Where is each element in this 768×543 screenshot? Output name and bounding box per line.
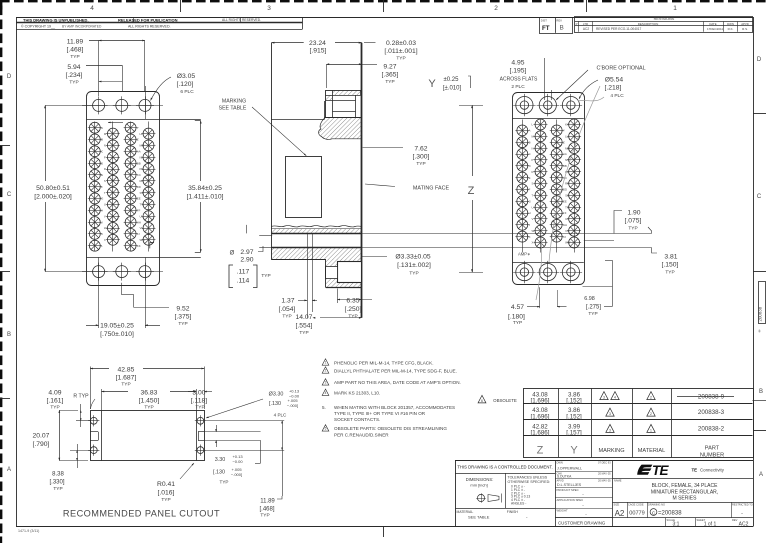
dims below middle view bbox=[307, 234, 309, 318]
svg-text:WEIGHT: WEIGHT bbox=[557, 509, 568, 513]
svg-text:2 PLC: 2 PLC bbox=[511, 84, 525, 90]
left view: connector front face bbox=[87, 92, 160, 286]
svg-text:ACROSS FLATS: ACROSS FLATS bbox=[500, 77, 538, 83]
svg-text:07 DEC 93: 07 DEC 93 bbox=[598, 461, 611, 465]
svg-text:6.98: 6.98 bbox=[584, 296, 595, 302]
svg-text:T: T bbox=[104, 191, 106, 195]
svg-text:20 MAY 05: 20 MAY 05 bbox=[598, 472, 611, 476]
svg-text:APPLICATION SPEC: APPLICATION SPEC bbox=[557, 498, 584, 502]
svg-text:TYP: TYP bbox=[348, 314, 357, 320]
svg-text:BB: BB bbox=[563, 164, 567, 168]
svg-text:[.300]: [.300] bbox=[413, 154, 430, 161]
svg-text:[.180]: [.180] bbox=[508, 313, 525, 320]
svg-text:RR: RR bbox=[140, 179, 144, 183]
svg-text:TOLERANCES UNLESS: TOLERANCES UNLESS bbox=[508, 476, 548, 480]
svg-text:N: N bbox=[104, 144, 106, 148]
svg-text:TYP: TYP bbox=[161, 497, 170, 503]
svg-text:LL: LL bbox=[140, 132, 144, 136]
svg-text:OBSOLETE: OBSOLETE bbox=[493, 398, 517, 403]
obsolete row label bbox=[478, 395, 486, 403]
svg-text:HH: HH bbox=[563, 223, 567, 227]
svg-text:3.81: 3.81 bbox=[664, 254, 677, 261]
svg-text:-: - bbox=[741, 511, 743, 517]
svg-text:TYP: TYP bbox=[261, 273, 270, 279]
TE logo bbox=[637, 463, 669, 478]
svg-text:SOCKET CONTACTS.: SOCKET CONTACTS. bbox=[334, 417, 380, 422]
notes list bbox=[322, 359, 329, 365]
middle view: side section bbox=[271, 43, 273, 260]
svg-text:Ø3.33±0.05: Ø3.33±0.05 bbox=[395, 254, 430, 261]
svg-text:W: W bbox=[532, 229, 535, 233]
svg-text:C: C bbox=[529, 152, 531, 156]
svg-text:.114: .114 bbox=[237, 278, 250, 285]
svg-text:EE: EE bbox=[563, 199, 567, 203]
svg-text:TYP: TYP bbox=[299, 330, 308, 336]
svg-text:[.375]: [.375] bbox=[175, 314, 192, 321]
controlled document cell bbox=[455, 473, 555, 475]
svg-text:H: H bbox=[101, 209, 103, 213]
svg-text:B: B bbox=[101, 138, 103, 142]
svg-text:19.05±0.25: 19.05±0.25 bbox=[100, 323, 134, 330]
svg-text:TYP: TYP bbox=[628, 226, 637, 232]
svg-text:3: 3 bbox=[325, 381, 327, 385]
svg-text:[2.000±.020]: [2.000±.020] bbox=[34, 194, 72, 201]
svg-text:MATING FACE: MATING FACE bbox=[413, 186, 450, 192]
svg-text:[.120]: [.120] bbox=[177, 81, 194, 88]
svg-text:±0.25: ±0.25 bbox=[444, 77, 460, 83]
svg-text:F: F bbox=[529, 188, 531, 192]
svg-text:[1.411±.010]: [1.411±.010] bbox=[187, 194, 224, 201]
svg-text:SS: SS bbox=[565, 194, 569, 198]
svg-text:R.S.: R.S. bbox=[742, 27, 748, 31]
svg-text:[.150]: [.150] bbox=[662, 262, 679, 269]
svg-text:TYP: TYP bbox=[50, 405, 59, 411]
svg-text:2: 2 bbox=[494, 5, 498, 12]
Z dim bbox=[459, 105, 483, 107]
svg-text:4: 4 bbox=[614, 396, 616, 400]
svg-text:Y: Y bbox=[563, 129, 565, 133]
svg-text:RR: RR bbox=[565, 182, 569, 186]
svg-text:200838-2: 200838-2 bbox=[698, 425, 725, 432]
svg-text:REV: REV bbox=[732, 518, 738, 522]
svg-text:APVD: APVD bbox=[557, 479, 564, 483]
projection symbol bbox=[477, 494, 484, 501]
svg-text:1.37: 1.37 bbox=[281, 298, 294, 305]
svg-text:[.130: [.130 bbox=[269, 401, 281, 407]
svg-text:8.38: 8.38 bbox=[52, 472, 64, 478]
svg-text:1 of 1: 1 of 1 bbox=[704, 522, 717, 528]
svg-text:CUSTOMER DRAWING: CUSTOMER DRAWING bbox=[558, 520, 606, 525]
svg-text:SS: SS bbox=[140, 191, 144, 195]
svg-text:6: 6 bbox=[481, 399, 483, 403]
dimensions cell bbox=[505, 473, 507, 508]
svg-text:[.130: [.130 bbox=[213, 470, 225, 476]
svg-text:K: K bbox=[529, 235, 531, 239]
svg-text:WW: WW bbox=[140, 238, 146, 242]
svg-text:V: V bbox=[104, 214, 106, 218]
svg-text:3.30: 3.30 bbox=[215, 457, 226, 463]
svg-text:RECOMMENDED PANEL CUTOUT: RECOMMENDED PANEL CUTOUT bbox=[63, 509, 220, 519]
svg-text:[1.696]: [1.696] bbox=[531, 397, 550, 404]
svg-text:MARKING: MARKING bbox=[598, 448, 624, 454]
svg-text:DD: DD bbox=[137, 185, 141, 189]
svg-text:[.075]: [.075] bbox=[625, 218, 642, 225]
svg-text:4.57: 4.57 bbox=[511, 304, 524, 311]
svg-text:[.330]: [.330] bbox=[49, 480, 64, 486]
cutout notches bbox=[90, 431, 98, 433]
svg-text:[.790]: [.790] bbox=[33, 441, 50, 448]
dim 9.27 bbox=[326, 64, 328, 88]
svg-text:AA: AA bbox=[563, 152, 567, 156]
svg-text:TT: TT bbox=[140, 203, 144, 207]
svg-text:[1.696]: [1.696] bbox=[531, 413, 550, 420]
svg-text:MATERIAL: MATERIAL bbox=[638, 448, 666, 454]
svg-text:P: P bbox=[104, 155, 106, 159]
dim 2.97/2.90 bbox=[246, 225, 248, 234]
svg-text:6: 6 bbox=[325, 427, 327, 431]
svg-text:Ø3.05: Ø3.05 bbox=[177, 73, 196, 80]
svg-text:20.07: 20.07 bbox=[33, 433, 50, 440]
svg-text:TE: TE bbox=[652, 463, 669, 478]
svg-text:TYP: TYP bbox=[53, 486, 62, 492]
svg-text:UU: UU bbox=[565, 217, 569, 221]
svg-text:MARKING: MARKING bbox=[222, 99, 246, 105]
svg-text:2.90: 2.90 bbox=[240, 257, 253, 264]
svg-text:DIALLYL PHTHALATE PER MIL-M-14: DIALLYL PHTHALATE PER MIL-M-14, TYPE SDG… bbox=[334, 368, 457, 373]
svg-text:K: K bbox=[101, 232, 103, 236]
svg-text:S.DUTKA: S.DUTKA bbox=[557, 475, 572, 479]
svg-text:3: 3 bbox=[603, 396, 605, 400]
svg-text:PP: PP bbox=[140, 167, 144, 171]
svg-text:TYP: TYP bbox=[121, 381, 130, 387]
svg-text:LL: LL bbox=[565, 135, 569, 139]
svg-text:PRODUCT SPEC: PRODUCT SPEC bbox=[557, 488, 579, 492]
gray leaders right view bbox=[549, 86, 600, 262]
svg-text:3:1: 3:1 bbox=[673, 522, 680, 528]
svg-text:D.L.STELLJES: D.L.STELLJES bbox=[557, 483, 582, 487]
svg-text:36.83: 36.83 bbox=[141, 390, 158, 397]
svg-text:UU: UU bbox=[140, 214, 144, 218]
svg-text:P: P bbox=[532, 158, 534, 162]
svg-text:REVISIONS: REVISIONS bbox=[654, 17, 675, 21]
svg-text:F: F bbox=[101, 185, 103, 189]
svg-text:ALL RIGHTS RESERVED.: ALL RIGHTS RESERVED. bbox=[128, 25, 171, 29]
svg-text:3: 3 bbox=[609, 412, 611, 416]
svg-text:FF: FF bbox=[563, 211, 567, 215]
svg-text:3: 3 bbox=[609, 428, 611, 432]
approvals column bbox=[555, 471, 612, 473]
svg-text:Ø5.54: Ø5.54 bbox=[605, 77, 624, 84]
svg-text:20 MAY 05: 20 MAY 05 bbox=[598, 479, 611, 483]
svg-text:[.468]: [.468] bbox=[259, 506, 274, 512]
svg-text:TYP: TYP bbox=[70, 54, 79, 60]
svg-text:[.157]: [.157] bbox=[566, 430, 582, 437]
svg-text:MM: MM bbox=[565, 146, 570, 150]
distribution box bbox=[540, 18, 573, 34]
svg-text:G: G bbox=[101, 197, 103, 201]
svg-text:ALL RIGHTS RESERVED.: ALL RIGHTS RESERVED. bbox=[222, 18, 261, 22]
svg-text:.117: .117 bbox=[237, 269, 250, 276]
svg-text:®: ® bbox=[758, 330, 761, 334]
svg-text:Y: Y bbox=[428, 78, 436, 90]
svg-text:Z: Z bbox=[468, 185, 475, 197]
svg-text:R: R bbox=[532, 170, 534, 174]
svg-text:[.054]: [.054] bbox=[279, 306, 296, 313]
svg-text:−0.00: −0.00 bbox=[232, 459, 243, 464]
svg-text:4.09: 4.09 bbox=[48, 390, 61, 397]
svg-text:2: 2 bbox=[650, 396, 652, 400]
title block bbox=[455, 460, 753, 462]
revisions table bbox=[575, 17, 753, 33]
svg-text:DIMENSIONS:: DIMENSIONS: bbox=[466, 477, 494, 482]
svg-text:THIS DRAWING IS UNPUBLISHED.: THIS DRAWING IS UNPUBLISHED. bbox=[23, 17, 89, 22]
svg-text:D: D bbox=[7, 74, 12, 80]
svg-text:5.: 5. bbox=[322, 405, 326, 410]
svg-text:TYP: TYP bbox=[416, 161, 425, 167]
svg-text:OTHERWISE SPECIFIED:: OTHERWISE SPECIFIED: bbox=[508, 480, 551, 484]
svg-text:MM: MM bbox=[140, 144, 145, 148]
title text bbox=[612, 478, 753, 480]
svg-text:Ø: Ø bbox=[230, 251, 235, 257]
svg-text:[.750±.010]: [.750±.010] bbox=[100, 331, 134, 338]
svg-text:TE: TE bbox=[692, 468, 698, 473]
svg-text:[.554]: [.554] bbox=[296, 323, 313, 330]
svg-text:C: C bbox=[7, 192, 12, 198]
svg-text:M SERIES: M SERIES bbox=[673, 495, 698, 501]
svg-text:A: A bbox=[7, 467, 11, 473]
svg-text:A: A bbox=[759, 472, 763, 478]
svg-text:U: U bbox=[532, 205, 534, 209]
svg-text:RELEASED FOR PUBLICATION: RELEASED FOR PUBLICATION bbox=[118, 17, 178, 22]
svg-text:[.915]: [.915] bbox=[310, 48, 327, 55]
svg-text:VV: VV bbox=[565, 229, 569, 233]
svg-text:TYPE II, TYPE III+ OR TYPE VI: TYPE II, TYPE III+ OR TYPE VI #16 PIN OR bbox=[334, 411, 426, 416]
svg-text:V: V bbox=[532, 217, 534, 221]
svg-text:A: A bbox=[101, 126, 103, 130]
svg-text:6 PLC: 6 PLC bbox=[180, 89, 194, 95]
svg-text:BY AMP INCORPORATED: BY AMP INCORPORATED bbox=[62, 25, 102, 29]
svg-text:[.195]: [.195] bbox=[510, 68, 527, 75]
svg-text:C: C bbox=[757, 194, 762, 200]
svg-text:KK: KK bbox=[137, 244, 141, 248]
svg-text:WHEN MATING WITH BLOCK 201357,: WHEN MATING WITH BLOCK 201357, ACCOMMODA… bbox=[334, 405, 455, 410]
svg-text:R.K.: R.K. bbox=[728, 27, 734, 31]
svg-text:R: R bbox=[104, 167, 106, 171]
svg-text:BLOCK, FEMALE, 34 PLACE: BLOCK, FEMALE, 34 PLACE bbox=[652, 483, 719, 489]
svg-text:MATERIAL: MATERIAL bbox=[457, 510, 474, 514]
svg-text:TYP: TYP bbox=[144, 405, 153, 411]
svg-text:Connectivity: Connectivity bbox=[700, 468, 725, 473]
svg-text:0.28±0.03: 0.28±0.03 bbox=[386, 40, 416, 47]
svg-text:[.118]: [.118] bbox=[191, 398, 208, 405]
svg-text:DESCRIPTION: DESCRIPTION bbox=[638, 22, 659, 26]
svg-text:Z: Z bbox=[537, 445, 544, 457]
svg-text:TYP: TYP bbox=[282, 314, 291, 320]
svg-text:[.011±.001]: [.011±.001] bbox=[384, 48, 417, 55]
svg-text:11.89: 11.89 bbox=[260, 499, 275, 505]
svg-text:4 PLC: 4 PLC bbox=[610, 93, 624, 99]
dim 3.30 notch bbox=[204, 431, 260, 433]
svg-text:TYP: TYP bbox=[513, 320, 522, 326]
svg-text:NN: NN bbox=[565, 158, 569, 162]
svg-text:BB: BB bbox=[137, 161, 141, 165]
svg-text:Ø3.30: Ø3.30 bbox=[269, 392, 284, 398]
svg-text:[1.450]: [1.450] bbox=[139, 398, 160, 405]
drawing frame bbox=[16, 17, 753, 19]
svg-text:[.161]: [.161] bbox=[47, 398, 64, 405]
svg-text:NN: NN bbox=[140, 155, 144, 159]
svg-text:Z: Z bbox=[563, 140, 565, 144]
svg-text:VV: VV bbox=[140, 226, 144, 230]
svg-text:Z: Z bbox=[137, 138, 139, 142]
svg-text:9.52: 9.52 bbox=[176, 306, 189, 313]
svg-text:TYP: TYP bbox=[665, 270, 674, 276]
part number table bbox=[524, 389, 754, 458]
svg-text:2.97: 2.97 bbox=[240, 249, 253, 256]
svg-text:THIS DRAWING IS A CONTROLLED D: THIS DRAWING IS A CONTROLLED DOCUMENT. bbox=[457, 465, 552, 470]
svg-text:−.000]: −.000] bbox=[231, 472, 242, 477]
svg-text:AMP∗: AMP∗ bbox=[518, 252, 531, 257]
svg-text:3: 3 bbox=[267, 5, 271, 12]
svg-text:AA: AA bbox=[137, 150, 141, 154]
svg-text:1: 1 bbox=[325, 361, 327, 365]
svg-text:C’BORE OPTIONAL: C’BORE OPTIONAL bbox=[596, 66, 645, 72]
svg-text:C: C bbox=[101, 150, 103, 154]
size row bbox=[612, 502, 753, 504]
svg-text:11.89: 11.89 bbox=[67, 39, 84, 46]
svg-text:[.250]: [.250] bbox=[345, 306, 362, 313]
dim 11.89 cutout bbox=[206, 420, 284, 422]
svg-text:DD: DD bbox=[563, 188, 567, 192]
svg-text:A: A bbox=[529, 129, 531, 133]
svg-text:TYP: TYP bbox=[385, 79, 394, 85]
svg-text:REV: REV bbox=[556, 18, 562, 22]
long extension lines across bbox=[362, 233, 652, 235]
svg-text:[.234]: [.234] bbox=[66, 72, 83, 79]
svg-text:200838: 200838 bbox=[758, 306, 763, 321]
svg-text:=200838: =200838 bbox=[658, 511, 682, 517]
svg-text:TYP: TYP bbox=[195, 405, 204, 411]
svg-text:[.016]: [.016] bbox=[158, 490, 175, 497]
svg-text:B: B bbox=[759, 389, 763, 395]
latch cavity top bbox=[332, 90, 360, 95]
svg-text:3.00: 3.00 bbox=[192, 390, 205, 397]
svg-text:DWN: DWN bbox=[727, 22, 734, 26]
svg-text:23.24: 23.24 bbox=[309, 40, 326, 47]
svg-text:4: 4 bbox=[90, 5, 94, 12]
svg-text:R0.41: R0.41 bbox=[157, 481, 175, 488]
svg-text:CAGE CODE: CAGE CODE bbox=[628, 502, 644, 506]
svg-text:AC2: AC2 bbox=[583, 27, 589, 31]
svg-text:X: X bbox=[532, 241, 534, 245]
svg-text:2: 2 bbox=[325, 369, 327, 373]
svg-text:6.35: 6.35 bbox=[346, 298, 359, 305]
dim 3.00 bbox=[188, 391, 196, 393]
svg-text:TYP: TYP bbox=[69, 80, 78, 86]
svg-text:42.85: 42.85 bbox=[118, 366, 135, 373]
svg-text:P: P bbox=[576, 22, 578, 26]
svg-text:D: D bbox=[529, 164, 531, 168]
svg-text:AMP PART NO THIS AREA, DATE CO: AMP PART NO THIS AREA, DATE CODE AT AMP'… bbox=[334, 380, 461, 385]
svg-text:[.218]: [.218] bbox=[605, 85, 622, 92]
section break blob top bbox=[319, 118, 362, 140]
svg-text:LTR: LTR bbox=[583, 22, 588, 26]
svg-text:5.94: 5.94 bbox=[67, 64, 80, 71]
svg-text:AC2: AC2 bbox=[739, 522, 749, 528]
svg-text:FT: FT bbox=[542, 25, 550, 32]
svg-text:9.27: 9.27 bbox=[383, 64, 396, 71]
svg-text:X: X bbox=[104, 238, 106, 242]
svg-text:NUMBER: NUMBER bbox=[700, 453, 724, 459]
svg-text:PER C.RENAUD/D.SINER: PER C.RENAUD/D.SINER bbox=[334, 432, 389, 437]
svg-text:EE: EE bbox=[137, 197, 141, 201]
svg-text:DATE: DATE bbox=[709, 22, 716, 26]
svg-text:N: N bbox=[532, 146, 534, 150]
svg-text:50.80±0.51: 50.80±0.51 bbox=[36, 185, 70, 192]
svg-text:[.152]: [.152] bbox=[566, 413, 582, 420]
svg-text:G: G bbox=[529, 199, 531, 203]
svg-text:B: B bbox=[7, 332, 11, 338]
svg-text:RESTRICTED TO: RESTRICTED TO bbox=[732, 502, 753, 506]
svg-text:TYP: TYP bbox=[178, 321, 187, 327]
svg-text:00779: 00779 bbox=[629, 511, 645, 517]
svg-text:[.131±.002]: [.131±.002] bbox=[397, 262, 431, 269]
right view: rear face bbox=[513, 93, 585, 285]
svg-text:REVISED PER ECO-11-004017: REVISED PER ECO-11-004017 bbox=[596, 27, 642, 31]
svg-text:E: E bbox=[101, 173, 103, 177]
svg-text:NAME: NAME bbox=[614, 479, 622, 483]
svg-text:[.275]: [.275] bbox=[586, 305, 601, 311]
svg-text:2: 2 bbox=[650, 412, 652, 416]
svg-text:KK: KK bbox=[565, 123, 569, 127]
svg-text:14.07: 14.07 bbox=[296, 314, 313, 321]
svg-text:TYP: TYP bbox=[409, 271, 418, 277]
svg-text:4.95: 4.95 bbox=[511, 60, 524, 67]
svg-text:A2: A2 bbox=[615, 509, 625, 518]
svg-text:200838-3: 200838-3 bbox=[698, 409, 725, 416]
page border dashes bbox=[0, 0, 10, 2]
svg-text:PHENOLIC PER MIL-M-14, TYPE CF: PHENOLIC PER MIL-M-14, TYPE CFG, BLACK. bbox=[334, 360, 433, 365]
svg-text:MARK KS 21303, L10.: MARK KS 21303, L10. bbox=[334, 391, 380, 396]
svg-text:[±.010]: [±.010] bbox=[443, 86, 462, 92]
svg-text:HH: HH bbox=[137, 220, 141, 224]
svg-text:35.84±0.25: 35.84±0.25 bbox=[188, 185, 222, 192]
bottom row bbox=[555, 517, 753, 519]
foot bottom bbox=[326, 259, 362, 288]
svg-text:D: D bbox=[101, 161, 103, 165]
svg-text:1.90: 1.90 bbox=[627, 210, 640, 217]
svg-text:R TYP: R TYP bbox=[73, 394, 89, 400]
svg-text:17DEC2011: 17DEC2011 bbox=[707, 27, 723, 31]
svg-text:H: H bbox=[529, 211, 531, 215]
svg-text:DIST: DIST bbox=[541, 18, 547, 22]
svg-text:S: S bbox=[532, 182, 534, 186]
svg-text:[1.686]: [1.686] bbox=[531, 430, 550, 437]
svg-text:APVD: APVD bbox=[741, 22, 749, 26]
svg-text:ANGLES -: ANGLES - bbox=[511, 502, 526, 506]
panel cutout outline bbox=[91, 411, 205, 461]
marking rectangle bbox=[286, 157, 322, 218]
svg-text:SEE TABLE: SEE TABLE bbox=[219, 106, 247, 112]
svg-text:FINISH: FINISH bbox=[507, 510, 519, 514]
right edge strip bbox=[759, 282, 766, 324]
svg-text:E: E bbox=[529, 176, 531, 180]
svg-text:SIZE: SIZE bbox=[614, 502, 620, 506]
svg-text:4 PLC: 4 PLC bbox=[274, 413, 287, 418]
svg-text:Y: Y bbox=[570, 445, 578, 457]
svg-text:OBSOLETE PARTS: OBSOLETE DIS S: OBSOLETE PARTS: OBSOLETE DIS STREAMLININ… bbox=[334, 426, 447, 431]
svg-text:CC: CC bbox=[137, 173, 141, 177]
